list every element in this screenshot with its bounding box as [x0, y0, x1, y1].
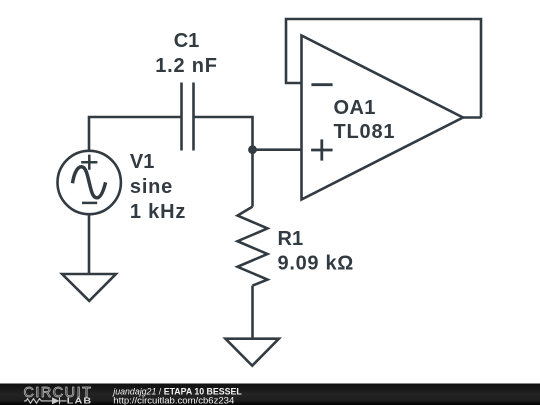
svg-text:C1: C1 — [174, 30, 200, 52]
op-amp inverting input symbol — [311, 83, 332, 86]
wire R1 to ground — [251, 286, 254, 339]
svg-text:1.2 nF: 1.2 nF — [155, 55, 218, 77]
wire node A to op-amp non-inverting input — [253, 148, 302, 151]
svg-text:R1: R1 — [278, 228, 304, 250]
ground (R1) — [225, 339, 279, 366]
svg-text:http://circuitlab.com/cb6z234: http://circuitlab.com/cb6z234 — [113, 396, 235, 405]
wire V1 top to C1 left plate — [89, 117, 182, 151]
voltage source V1 — [57, 151, 120, 214]
svg-text:OA1: OA1 — [334, 97, 376, 119]
op-amp non-inverting input symbol — [311, 139, 333, 160]
wire V1 bottom to ground — [88, 214, 91, 274]
CircuitLab logo diode triangle — [52, 397, 60, 404]
svg-text:sine: sine — [130, 176, 173, 198]
op-amp OA1 triangle — [302, 36, 464, 200]
wire node A down to resistor R1 — [251, 150, 254, 207]
svg-text:LAB: LAB — [67, 397, 92, 405]
svg-text:9.09 kΩ: 9.09 kΩ — [278, 252, 355, 274]
footer bar — [0, 384, 540, 405]
svg-text:TL081: TL081 — [334, 121, 396, 143]
resistor R1 — [238, 207, 268, 286]
wire feedback loop output to inverting input — [286, 19, 481, 118]
svg-text:1 kHz: 1 kHz — [130, 201, 186, 223]
ground (V1) — [62, 274, 116, 301]
wire C1 right plate to node A — [194, 117, 253, 150]
CircuitLab logo wire-resistor-diode motif — [24, 397, 67, 404]
svg-text:V1: V1 — [130, 151, 154, 173]
wire op-amp output stub — [463, 116, 481, 119]
capacitor C1 — [182, 83, 194, 151]
node A junction dot — [248, 145, 257, 154]
